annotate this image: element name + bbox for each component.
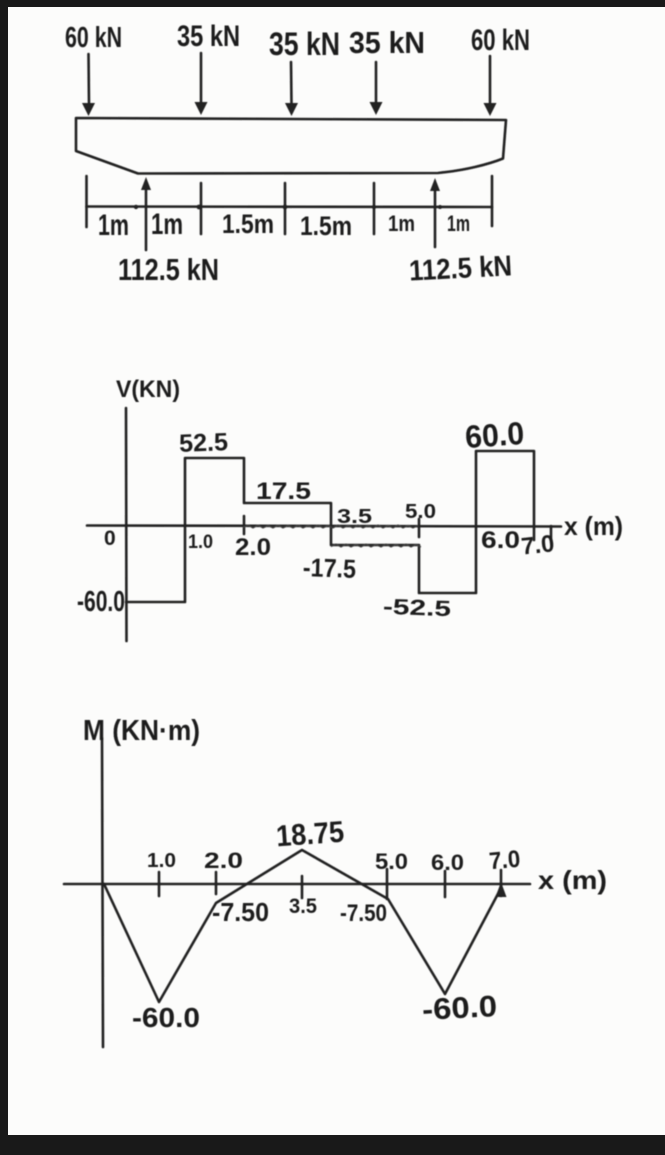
svg-text:0: 0: [104, 527, 116, 550]
svg-text:35 kN: 35 kN: [177, 20, 240, 53]
svg-text:7.0: 7.0: [488, 846, 521, 876]
svg-text:2.0: 2.0: [204, 848, 243, 873]
svg-text:60 kN: 60 kN: [65, 22, 122, 54]
svg-text:-17.5: -17.5: [302, 552, 356, 584]
svg-text:1.0: 1.0: [147, 850, 176, 872]
svg-text:35 kN: 35 kN: [349, 25, 425, 60]
svg-text:-60.0: -60.0: [77, 586, 125, 618]
svg-text:52.5: 52.5: [179, 428, 229, 458]
svg-text:2.0: 2.0: [235, 534, 271, 561]
svg-text:17.5: 17.5: [256, 478, 311, 505]
svg-text:1.5m: 1.5m: [222, 209, 274, 239]
svg-text:3.5: 3.5: [289, 895, 317, 918]
svg-text:V(KN): V(KN): [116, 376, 180, 403]
svg-text:7.0: 7.0: [520, 530, 556, 560]
svg-text:5.0: 5.0: [405, 501, 436, 523]
svg-text:1m: 1m: [388, 211, 415, 236]
svg-text:-60.0: -60.0: [132, 1002, 200, 1033]
svg-text:35 kN: 35 kN: [269, 26, 340, 62]
svg-text:1m: 1m: [447, 211, 470, 236]
svg-text:-52.5: -52.5: [383, 594, 452, 621]
svg-text:1.0: 1.0: [188, 532, 213, 553]
svg-text:5.0: 5.0: [375, 849, 408, 874]
svg-text:x (m): x (m): [564, 511, 623, 541]
svg-text:-7.50: -7.50: [212, 897, 269, 927]
svg-text:-7.50: -7.50: [340, 900, 387, 927]
svg-text:6.0: 6.0: [431, 850, 464, 875]
svg-text:112.5 kN: 112.5 kN: [118, 252, 219, 287]
svg-text:x (m): x (m): [538, 865, 607, 895]
svg-text:60.0: 60.0: [464, 415, 525, 455]
svg-text:-60.0: -60.0: [421, 990, 498, 1027]
svg-text:112.5 kN: 112.5 kN: [408, 250, 513, 287]
svg-text:6.0: 6.0: [481, 527, 520, 554]
svg-text:1m: 1m: [98, 209, 129, 242]
svg-text:1m: 1m: [151, 208, 183, 241]
svg-text:M (KN·m): M (KN·m): [83, 715, 200, 747]
svg-text:18.75: 18.75: [275, 816, 345, 854]
svg-text:60 kN: 60 kN: [471, 24, 530, 57]
svg-text:3.5: 3.5: [337, 506, 372, 528]
svg-text:1.5m: 1.5m: [300, 211, 352, 241]
